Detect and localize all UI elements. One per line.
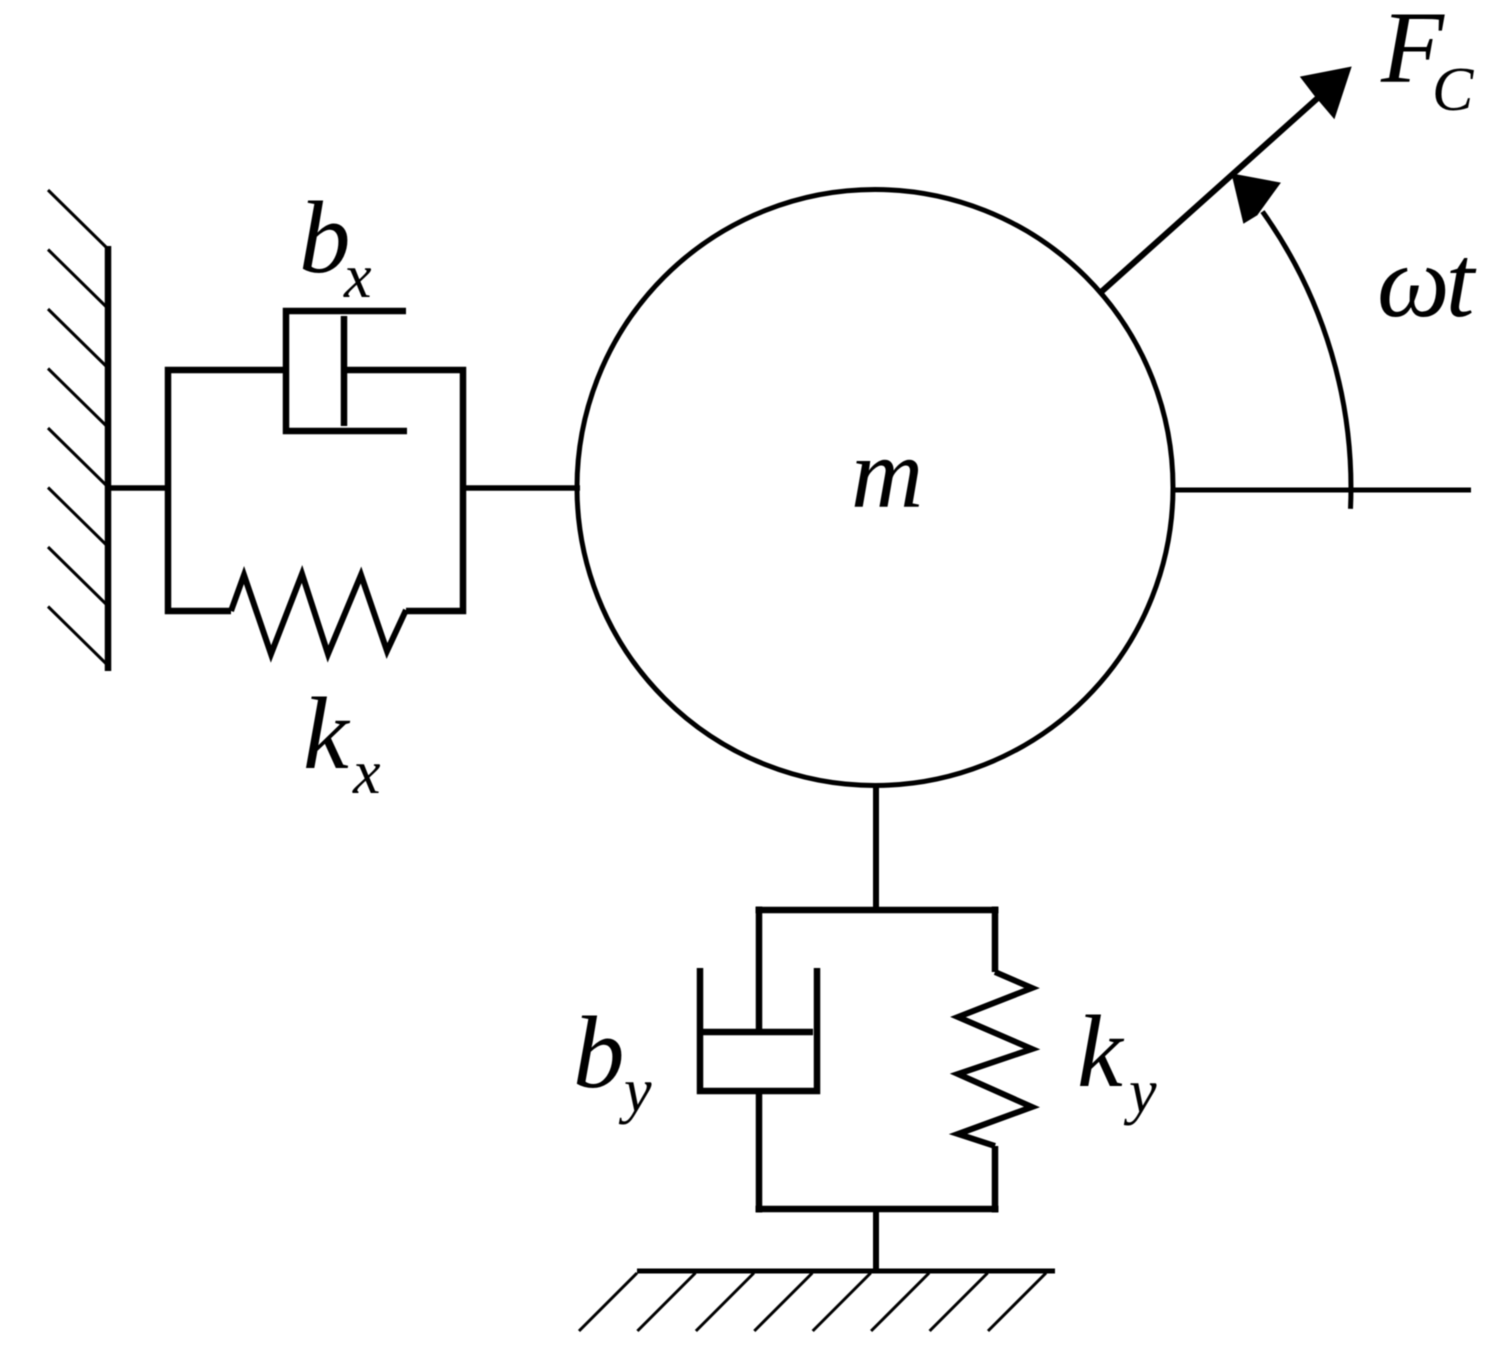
label FC — [1380, 0, 1474, 124]
label ky — [1077, 995, 1157, 1126]
svg-text:m: m — [851, 418, 923, 529]
spring ky (with connecting stubs) — [958, 907, 1032, 1213]
spring kx — [231, 574, 406, 654]
mass m (circle) — [577, 190, 1173, 786]
wall (fixed support, left) with hatching — [48, 190, 108, 671]
wire: wall to bx/kx parallel combination — [108, 485, 171, 491]
label by — [573, 996, 652, 1125]
ground (fixed support, bottom) with hatching — [579, 1271, 1055, 1331]
svg-text:k: k — [1077, 995, 1125, 1109]
svg-text:y: y — [1123, 1058, 1157, 1126]
svg-text:b: b — [573, 996, 625, 1110]
lower parallel combination frame (top and bottom rails) — [756, 910, 999, 1209]
svg-text:b: b — [299, 181, 351, 295]
svg-text:x: x — [352, 739, 381, 807]
wire: parallel combination to mass — [463, 485, 580, 491]
force vector FC (radial arrow from mass) — [1100, 67, 1352, 294]
damper bx (cup, piston and frame of parallel combination) — [168, 311, 463, 611]
angle arc wt (from axis to force vector, arrowhead at end) — [1231, 173, 1351, 508]
label bx — [299, 181, 372, 311]
svg-text:ωt: ωt — [1377, 225, 1477, 339]
svg-text:C: C — [1432, 56, 1474, 124]
svg-text:k: k — [303, 677, 351, 791]
wire: lower combination to ground — [873, 1209, 879, 1273]
horizontal reference axis — [1171, 488, 1471, 493]
svg-text:y: y — [618, 1057, 652, 1125]
damper by (rod, cup, piston) — [700, 907, 817, 1213]
svg-text:x: x — [343, 243, 372, 311]
wire: mass to lower parallel combination — [873, 784, 879, 913]
label kx — [303, 677, 381, 807]
